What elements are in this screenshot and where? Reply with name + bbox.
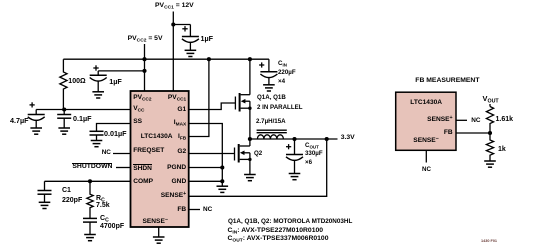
label CIN value 220uF [278, 70, 296, 76]
ground for SENSE- [153, 237, 165, 243]
resistor R1 100 ohm [60, 59, 67, 109]
label RC designator [96, 195, 105, 202]
ground for CIN [263, 85, 275, 91]
pin label U1 G1 [177, 107, 186, 114]
label PVCC2 = 5V [128, 36, 163, 43]
wire VCC [36, 109, 130, 111]
pin label U1 PVCC1 [168, 95, 186, 102]
pin label U1 FREQSET [133, 148, 164, 155]
wire switch node to output [250, 138, 338, 140]
ground for C4 [30, 128, 42, 134]
wire G1 to Q1 gate [189, 103, 236, 110]
wire SENSE- pin to ground [158, 227, 160, 237]
resistor R2 1.61k [486, 107, 493, 134]
wire IFB to 5V bus [189, 59, 209, 136]
capacitor C2 1uF (PVCC2 bypass) [90, 65, 107, 92]
capacitor C4 4.7uF [28, 102, 45, 128]
node COUT junction [292, 137, 296, 141]
pin label U1 SENSE- [143, 219, 168, 226]
wire U2 SENSE+ NC stub [456, 119, 467, 121]
resistor R3 1k [486, 133, 493, 161]
label 2 IN PARALLEL [257, 105, 302, 111]
note line 3 COUT AVX [228, 236, 329, 243]
pin label U1 IMAX [174, 120, 186, 127]
label FB MEASUREMENT title [415, 78, 479, 85]
note line 1 Q1A Q1B Q2 MOTOROLA [228, 219, 352, 226]
transistor Q1 (Q1A/Q1B) [235, 59, 251, 139]
part name U2 LTC1430A [410, 100, 442, 107]
capacitor C3 1uF (PVCC1 bypass) [182, 25, 199, 51]
label COUT count x6 [305, 160, 312, 166]
ground for C2 [92, 92, 104, 98]
wire PGND [189, 167, 223, 169]
ground for COUT [289, 174, 301, 180]
wire PVCC1 12V feed [172, 12, 174, 92]
capacitor C6 0.01uF [90, 131, 104, 140]
label R3 value 1k [498, 146, 506, 153]
pin label U1 SHDN [133, 164, 152, 172]
ground for C3 [185, 50, 197, 56]
wire SENSE+ feedback [189, 139, 327, 196]
pin label U1 PGND [167, 165, 186, 172]
ground for power rail [217, 186, 229, 192]
part name LTC1430A [141, 134, 173, 141]
pin label U1 VCC [133, 106, 144, 113]
resistor RC 7.5k [87, 181, 93, 218]
capacitor C1 220pF [38, 181, 52, 202]
pin label U1 IFB [178, 134, 186, 141]
pin label U1 G2 [177, 149, 186, 156]
ground for C6 [91, 141, 103, 147]
wire C2 bypass to PVCC2 [98, 70, 144, 72]
wire FREQSET NC stub [113, 153, 131, 155]
ground for C1 [39, 202, 51, 208]
label NC on FREQSET [102, 150, 111, 156]
wire VOUT feed [489, 104, 491, 107]
wire COMP [45, 180, 131, 182]
label COUT designator [305, 143, 319, 149]
wire 12V node to C3 [173, 24, 190, 26]
pin label U2 FB [444, 130, 453, 137]
pin label U1 GND [172, 179, 187, 186]
node 12V / C3 junction [171, 22, 175, 26]
label R1 value 100 ohm [68, 78, 85, 85]
node switch node [248, 137, 252, 141]
capacitor C5 0.1uF [57, 110, 71, 129]
label C6 value 0.01uF [104, 130, 127, 137]
node GND / rail junction [220, 179, 224, 183]
wire SHDN stub [116, 167, 131, 169]
node IFB riser / 5V bus junction [207, 57, 211, 61]
node FB divider junction [488, 131, 492, 135]
label CIN count x4 [278, 79, 285, 85]
pin label U1 SENSE+ [161, 193, 186, 200]
label COUT value 330uF [305, 151, 323, 157]
node 5V bus / PVCC2 junction [142, 57, 146, 61]
label Q1A Q1B [257, 95, 286, 101]
capacitor CIN 220uF [259, 59, 277, 85]
op-amp U1 LTC1430A body [131, 91, 189, 227]
label VOUT [483, 95, 499, 102]
node VCC / 100 ohm / 0.1uF junction [62, 107, 66, 111]
label CC value 4700pF [100, 223, 124, 230]
label RC value 7.5k [96, 202, 110, 209]
label C4 value 4.7uF [10, 117, 29, 124]
wire IMAX to ground rail [189, 124, 223, 187]
node Q1 drain / 5V bus junction [248, 57, 252, 61]
pin label U1 FB [177, 207, 186, 214]
node PGND / rail junction [220, 165, 224, 169]
ground for Q2 source [244, 175, 256, 181]
label L1 value 2.7uH/15A [256, 119, 286, 125]
label CC designator [100, 215, 109, 222]
pin label U1 PVCC2 [133, 95, 151, 102]
note line 2 CIN AVX [228, 228, 324, 235]
wire FB NC stub [189, 209, 200, 211]
label Q2 designator [254, 151, 262, 157]
wire SS [97, 124, 131, 132]
node PVCC2 / C2 bypass junction [142, 69, 146, 73]
label NC on U2 SENSE+ [471, 118, 480, 124]
label C2 value 1uF [109, 78, 122, 85]
transistor Q2 [235, 139, 252, 175]
label C5 value 0.1uF [73, 115, 92, 122]
label C1 value 220pF [62, 197, 82, 204]
label figure number 1430 F01 [481, 240, 497, 244]
label R2 value 1.61k [496, 116, 514, 123]
wire GND [189, 180, 223, 182]
pin label U2 SENSE+ [427, 117, 452, 124]
label NC on U2 SENSE- [422, 167, 431, 173]
ground for CC [84, 235, 96, 241]
node COMP / RC junction [88, 179, 92, 183]
label C1 designator [62, 187, 71, 194]
ground for R3 [484, 161, 496, 167]
ground for C5 [58, 128, 70, 134]
label PVCC1 = 12V [155, 3, 194, 10]
label output 3.3V [341, 135, 355, 142]
wire U2 SENSE- NC stub [425, 150, 427, 162]
label SHUTDOWN [72, 163, 112, 171]
pin label U1 SS [133, 119, 142, 126]
label CIN designator [278, 61, 287, 67]
wire 5V bus [63, 58, 269, 60]
capacitor COUT 330uF [286, 139, 303, 174]
pin label U1 COMP [133, 179, 153, 186]
node output sense tap [325, 137, 329, 141]
pin label U2 SENSE- [413, 138, 438, 145]
wire U2 FB to divider [456, 132, 490, 134]
label C3 value 1uF [201, 35, 214, 42]
inductor L1 2.7uH [257, 130, 287, 139]
capacitor CC 4700pF [83, 218, 97, 234]
op-amp U2 FB measurement LTC1430A body [396, 92, 456, 150]
label NC on FB [203, 207, 212, 213]
wire PVCC2 5V feed [144, 44, 146, 92]
wire G2 to Q2 gate [189, 153, 235, 155]
